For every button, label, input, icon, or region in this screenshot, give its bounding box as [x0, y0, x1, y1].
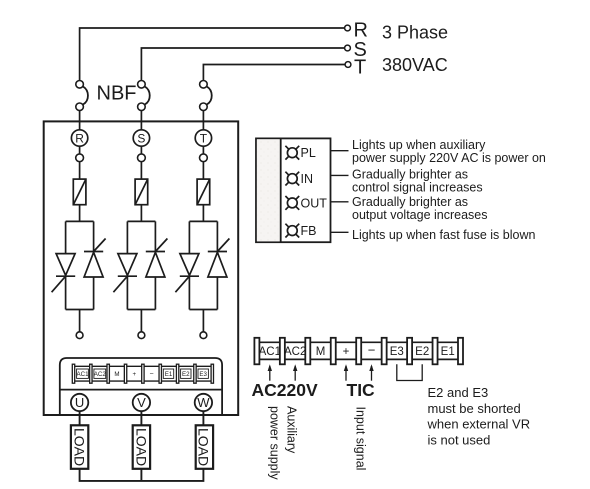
arrow plus [344, 364, 348, 380]
svg-text:M: M [316, 346, 326, 358]
svg-text:NBF: NBF [97, 83, 137, 105]
svg-text:E1: E1 [165, 371, 173, 378]
svg-text:LOAD: LOAD [133, 428, 149, 466]
wire V to load [140, 411, 142, 425]
output terminal V [133, 394, 150, 411]
svg-text:E2 and E3: E2 and E3 [428, 385, 489, 400]
callout line PL [331, 150, 349, 152]
svg-text:AC2: AC2 [284, 346, 306, 358]
svg-text:W: W [197, 395, 210, 410]
svg-text:E3: E3 [390, 346, 404, 358]
svg-text:E2: E2 [182, 371, 190, 378]
wire phase S top [141, 48, 344, 81]
thyristor pair phase R [52, 221, 106, 309]
breaker NBF pole R [76, 81, 88, 131]
svg-text:FB: FB [301, 224, 317, 238]
svg-text:S: S [137, 131, 145, 145]
svg-text:control signal increases: control signal increases [352, 181, 483, 195]
output terminal U [71, 394, 88, 411]
svg-text:380VAC: 380VAC [382, 55, 448, 75]
wire fuse to SCR phase S [140, 205, 142, 222]
SCR output node phase T [200, 310, 207, 339]
indicator panel [256, 138, 331, 242]
input terminal T [195, 130, 211, 146]
text 3 phase labels [72, 20, 546, 481]
load W [196, 425, 213, 469]
wire phase T top [203, 65, 345, 81]
external terminal strip [254, 338, 463, 365]
arrow AC2 [293, 364, 297, 380]
svg-text:3 Phase: 3 Phase [382, 23, 448, 43]
svg-text:Gradually brighter as: Gradually brighter as [352, 195, 468, 209]
short link E3 E2 [397, 364, 422, 380]
wire W to load [202, 411, 204, 425]
wire S to fuse [138, 146, 146, 179]
breaker NBF pole S [138, 81, 150, 131]
thyristor pair phase S [113, 221, 167, 309]
svg-text:U: U [75, 395, 84, 410]
svg-text:−: − [368, 343, 376, 358]
lamp IN [285, 172, 299, 186]
thyristor pair phase T [175, 221, 229, 309]
svg-text:LOAD: LOAD [72, 428, 88, 466]
svg-text:AC2: AC2 [94, 371, 107, 378]
wire R to fuse [76, 146, 84, 179]
lamp PL [285, 146, 299, 160]
svg-text:+: + [132, 371, 136, 378]
svg-text:when external VR: when external VR [427, 417, 531, 432]
svg-text:V: V [137, 395, 146, 410]
wire T to fuse [200, 146, 208, 179]
fuse F3 phase T [197, 179, 210, 205]
wire U to load [79, 411, 81, 425]
svg-text:Auxiliary: Auxiliary [285, 406, 299, 454]
callout line FB [331, 231, 349, 233]
svg-text:Input signal: Input signal [354, 407, 368, 471]
terminal T [345, 62, 351, 68]
load V [133, 425, 150, 469]
svg-text:is not used: is not used [428, 432, 491, 447]
svg-text:IN: IN [301, 172, 314, 186]
SCR output node phase S [138, 310, 145, 339]
fuse F1 phase R [73, 179, 86, 205]
terminal S [345, 45, 351, 51]
input terminal S [133, 130, 149, 146]
svg-text:AC1: AC1 [259, 346, 281, 358]
load common bus wire [80, 469, 204, 481]
svg-text:R: R [75, 131, 84, 145]
svg-text:PL: PL [301, 146, 316, 160]
terminal R [345, 25, 351, 31]
fuse F2 phase S [135, 179, 148, 205]
svg-text:TIC: TIC [347, 380, 376, 400]
svg-text:output voltage increases: output voltage increases [352, 208, 488, 222]
svg-text:AC1: AC1 [76, 371, 89, 378]
svg-text:must be shorted: must be shorted [428, 401, 521, 416]
svg-text:Lights up when fast fuse is bl: Lights up when fast fuse is blown [352, 228, 535, 242]
lamp OUT [285, 196, 299, 210]
wire fuse to SCR phase T [202, 205, 204, 222]
svg-text:OUT: OUT [301, 196, 328, 210]
wire phase R top [80, 28, 345, 81]
internal strip labels [76, 371, 207, 378]
wire fuse to SCR phase R [79, 205, 81, 222]
input terminal R [71, 130, 87, 146]
external strip labels [259, 343, 455, 359]
svg-text:power supply: power supply [268, 406, 282, 480]
svg-text:E2: E2 [415, 346, 429, 358]
load U [71, 425, 88, 469]
svg-text:LOAD: LOAD [195, 428, 211, 466]
lamp FB [285, 224, 299, 238]
svg-text:E3: E3 [199, 371, 207, 378]
arrow minus [369, 364, 373, 380]
svg-text:Gradually brighter as: Gradually brighter as [352, 168, 468, 182]
breaker NBF pole T [200, 81, 212, 131]
callout line IN [331, 174, 349, 176]
callout line OUT [331, 201, 349, 203]
svg-text:Lights up when auxiliary: Lights up when auxiliary [352, 138, 486, 152]
control terminal block housing [60, 358, 222, 415]
arrow AC1 [268, 364, 272, 380]
svg-text:+: + [343, 346, 350, 358]
enclosure box [44, 121, 239, 415]
svg-text:T: T [354, 57, 366, 79]
svg-text:T: T [200, 131, 208, 145]
svg-text:−: − [150, 371, 154, 378]
SCR output node phase R [76, 310, 83, 339]
svg-text:AC220V: AC220V [252, 380, 318, 400]
svg-text:power supply 220V AC is power: power supply 220V AC is power on [352, 151, 546, 165]
output terminal W [195, 394, 212, 411]
internal terminal strip [72, 364, 213, 383]
svg-text:E1: E1 [441, 346, 455, 358]
svg-text:M: M [114, 371, 119, 378]
